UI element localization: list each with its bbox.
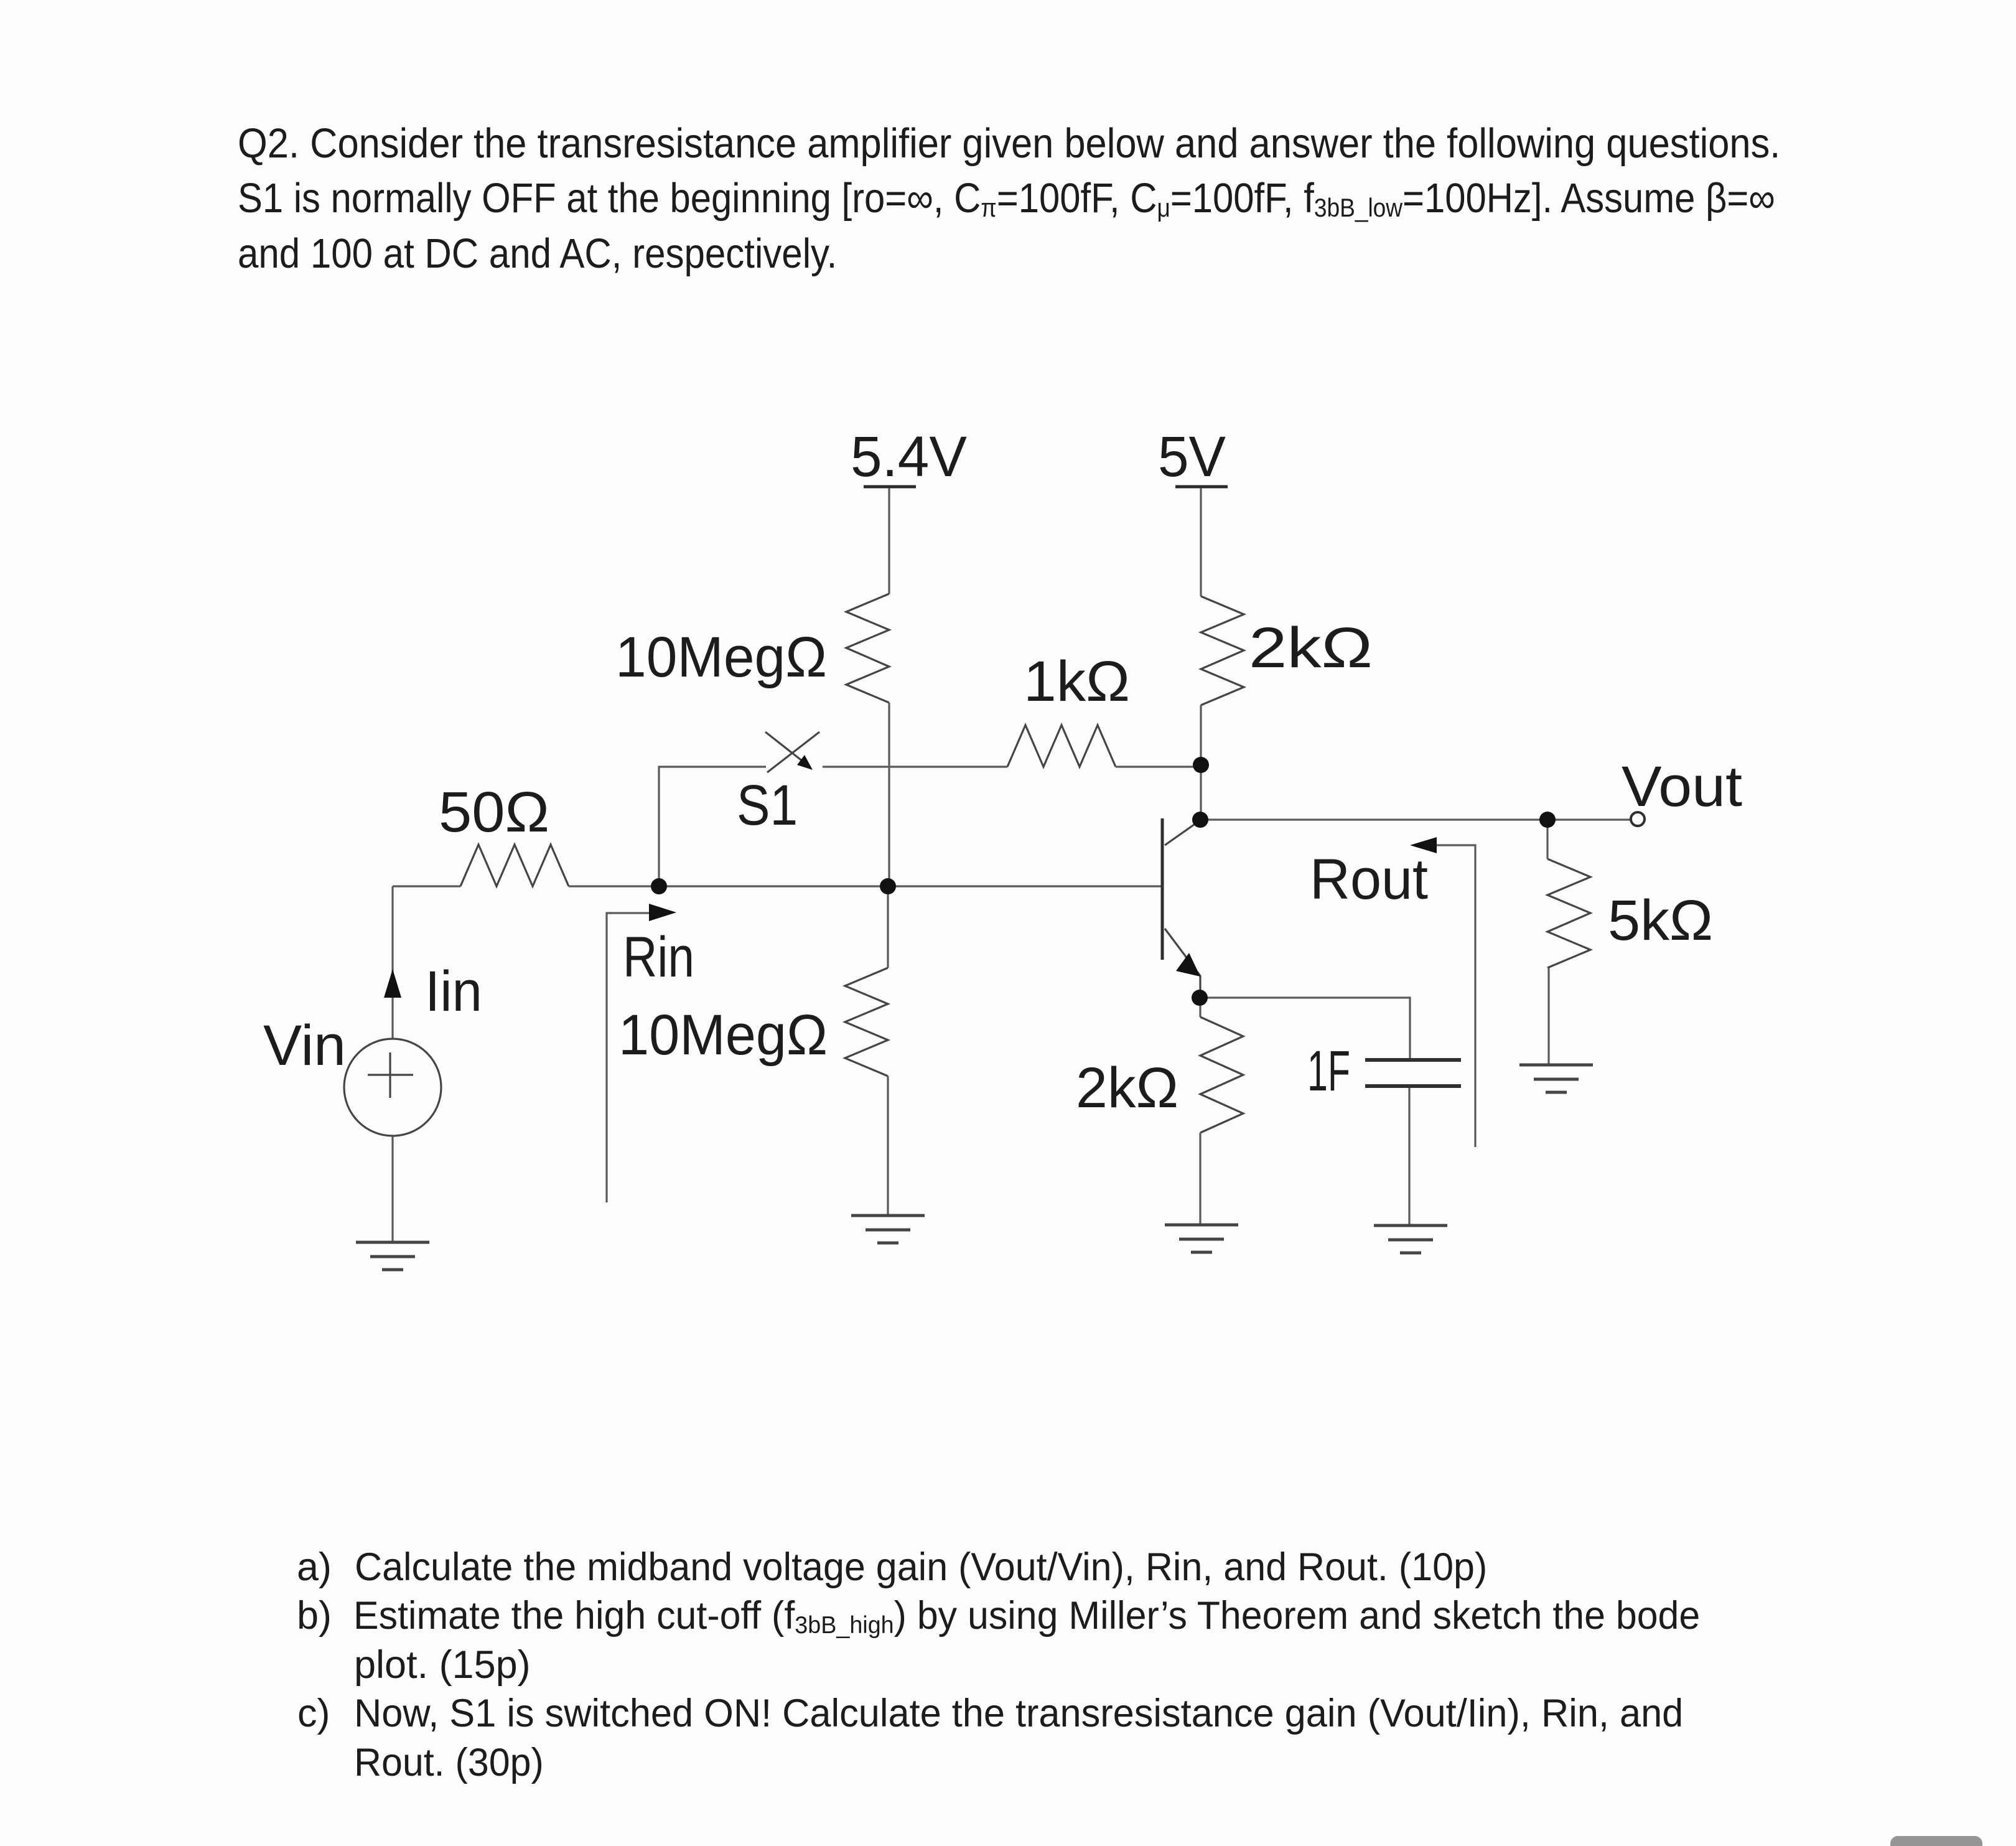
ground (10Meg bottom) (851, 1216, 925, 1243)
resistor R1 10MegOhm (top, 5.4V to base node) (846, 594, 889, 703)
arrowhead Rout (pointing left) (1410, 837, 1437, 853)
arrowhead of switch S1 blade (797, 755, 813, 770)
power supply 5V bar (1175, 485, 1228, 489)
wire main base wire right segment to transistor base (569, 885, 1162, 887)
svg-text:1kΩ: 1kΩ (1024, 650, 1130, 713)
wire 5k bottom to ground (1547, 968, 1549, 1065)
svg-text:Vout: Vout (1622, 755, 1742, 818)
ground (2k emitter resistor) (1165, 1225, 1238, 1252)
scrollbar thumb bottom right (1890, 1836, 1982, 1846)
wire capacitor bottom to ground (1408, 1088, 1410, 1225)
svg-text:5.4V: 5.4V (851, 425, 967, 489)
wire 5k from output node down (1546, 820, 1548, 859)
wire 2k top to node A (1200, 705, 1202, 767)
svg-text:2kΩ: 2kΩ (1249, 616, 1373, 680)
wire Vin source left column (391, 886, 393, 1039)
wire 10Meg top to main base wire (888, 703, 890, 886)
terminal Vout open circle (1631, 812, 1645, 826)
svg-text:5kΩ: 5kΩ (1608, 889, 1713, 952)
svg-text:50Ω: 50Ω (439, 780, 549, 844)
wire node A down to collector node B (1200, 767, 1202, 820)
Rout indicator line (1428, 845, 1475, 1147)
resistor R3 1kOhm (horizontal) (1007, 725, 1116, 767)
top paragraph text (238, 119, 1780, 167)
plus sign inside Vin source (368, 1052, 413, 1098)
wire switch to 1k resistor (823, 766, 1007, 767)
junction node dot A (1k / 2k top) (1193, 757, 1209, 773)
resistor R7 5kOhm (load) (1547, 859, 1590, 968)
wire 1k to node A (1116, 766, 1201, 767)
svg-text:10MegΩ: 10MegΩ (615, 625, 827, 689)
voltage source Vin circle (344, 1039, 441, 1136)
wire 10Meg bottom to ground (887, 1076, 889, 1216)
wire 5V post (1200, 488, 1202, 596)
ground (5k load) (1519, 1065, 1593, 1092)
ground (Vin source) (356, 1242, 429, 1270)
svg-text:1F: 1F (1307, 1039, 1350, 1103)
svg-text:5V: 5V (1158, 425, 1226, 489)
arrowhead Rin (pointing right into node) (649, 904, 676, 921)
svg-text:Rout: Rout (1310, 848, 1428, 911)
svg-text:Iin: Iin (425, 960, 482, 1023)
resistor R2 2kOhm (top, collector load) (1201, 596, 1244, 705)
transistor Q1 collector lead (1165, 822, 1198, 845)
arrowhead Iin (current direction) (384, 969, 401, 998)
svg-text:Vin: Vin (263, 1014, 346, 1077)
Rin indicator line (607, 913, 655, 1202)
svg-text:2kΩ: 2kΩ (1076, 1056, 1178, 1120)
capacitor C1 1F plates (1365, 1060, 1461, 1086)
wire emitter node to capacitor (1200, 998, 1410, 1058)
junction node dot B (collector node) (1192, 812, 1208, 828)
wire 2k bottom to ground (1199, 1133, 1201, 1225)
wire Vin source bottom to ground (391, 1136, 393, 1242)
wire collector node to Vout terminal (1201, 818, 1631, 820)
switch S1 cross line (767, 732, 819, 772)
resistor R4 50Ohm (horizontal, source) (460, 845, 569, 886)
switch S1 blade (765, 732, 806, 764)
junction node dot (emitter node) (1192, 990, 1208, 1006)
wire S1 branch from base wire up and right (659, 767, 766, 886)
svg-text:S1: S1 (737, 774, 798, 837)
wire 10Meg bottom from base node down (887, 886, 889, 968)
junction node dot (base wire / 10Meg column) (880, 878, 896, 894)
svg-text:Rin: Rin (623, 925, 694, 989)
resistor R6 2kOhm (bottom, emitter) (1200, 1017, 1243, 1133)
transistor Q1 emitter lead (1165, 929, 1200, 991)
transistor Q1 base bar (1161, 818, 1164, 960)
arrowhead on transistor emitter (1176, 953, 1200, 977)
wire 2k bottom from emitter node down (1199, 998, 1201, 1017)
ground (capacitor) (1374, 1225, 1447, 1253)
power supply 5.4V bar (864, 485, 916, 489)
wire 5.4V post (888, 488, 890, 594)
bottom question list (297, 1545, 332, 1590)
junction node dot (base wire / S1 branch) (651, 878, 667, 894)
svg-text:10MegΩ: 10MegΩ (618, 1003, 828, 1067)
junction node dot (Vout / 5k) (1539, 812, 1556, 828)
wire main base wire left segment (393, 885, 460, 887)
resistor R5 10MegOhm (bottom, base to ground) (845, 968, 888, 1076)
